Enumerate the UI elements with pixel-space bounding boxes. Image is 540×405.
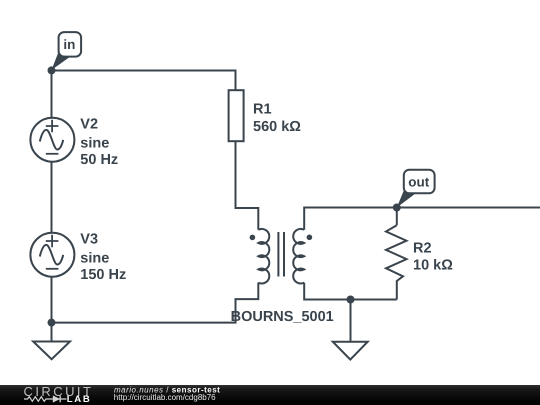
transformer phase dot secondary (307, 235, 313, 241)
svg-text:150 Hz: 150 Hz (80, 267, 126, 283)
transformer T1 secondary winding (293, 229, 304, 284)
wire: V2 to V3 (51, 162, 53, 234)
ground (right) (333, 342, 368, 360)
resistor R2 (386, 225, 407, 299)
wire: V3 down to ground junction (51, 276, 53, 323)
wire: out node down to R2 (396, 208, 398, 226)
node dot: secondary ground junction (347, 296, 355, 304)
resistor R1 (229, 90, 244, 141)
svg-text:out: out (408, 174, 429, 189)
svg-text:BOURNS_5001: BOURNS_5001 (231, 309, 334, 325)
node dot: out (393, 204, 401, 212)
wire: secondary top to out rail (304, 208, 540, 230)
transformer T1 primary winding (258, 229, 269, 284)
credits text (114, 385, 221, 402)
svg-text:V2: V2 (80, 117, 98, 133)
ground (left) (33, 342, 70, 360)
wire: junction down to ground (51, 323, 53, 341)
svg-text:R1: R1 (253, 102, 272, 118)
svg-text:560 kΩ: 560 kΩ (253, 119, 301, 135)
wire: secondary bottom rail (304, 283, 397, 300)
footer bar (0, 385, 540, 405)
svg-text:10 kΩ: 10 kΩ (413, 257, 453, 273)
transformer phase dot primary (250, 235, 256, 241)
svg-text:sine: sine (80, 135, 109, 151)
svg-text:R2: R2 (413, 240, 432, 256)
svg-text:sine: sine (80, 250, 109, 266)
wire: bottom rail from junction to transformer primary (52, 283, 259, 323)
node label: in (52, 32, 82, 70)
node dot: in (48, 66, 56, 74)
node label: out (397, 170, 435, 208)
svg-text:in: in (63, 37, 75, 52)
transformer core (278, 232, 284, 277)
CircuitLab logo (24, 384, 94, 405)
svg-text:V3: V3 (80, 232, 98, 248)
node dot: left ground junction (48, 319, 56, 327)
svg-text:50 Hz: 50 Hz (80, 152, 118, 168)
wire: R1 bottom to transformer primary top (236, 141, 259, 229)
wire: in node to R1 top rail (52, 71, 236, 119)
wire: bottom junction to ground (350, 300, 352, 341)
voltage source V3 (30, 233, 74, 277)
voltage source V2 (30, 118, 74, 162)
